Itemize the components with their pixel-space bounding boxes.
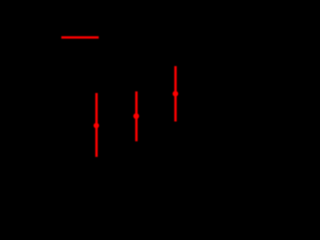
marker 1 dot xyxy=(94,123,100,129)
marker 2 dot xyxy=(133,113,139,119)
errorbar 3 vertical line xyxy=(174,66,176,121)
marker 3 dot xyxy=(173,91,179,97)
errorbar 1 vertical line xyxy=(95,93,97,157)
errorbar 2 vertical line xyxy=(135,91,137,141)
horizontal segment (top left) xyxy=(61,36,98,38)
